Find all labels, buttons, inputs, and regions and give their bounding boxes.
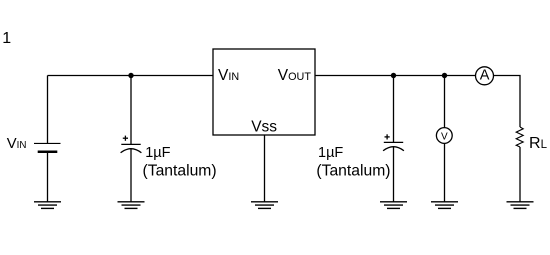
ammeter M1 <box>476 67 494 85</box>
wire voltmeter to ground <box>444 143 446 201</box>
wire ammeter to load corner <box>494 76 521 128</box>
battery V1 (input source) <box>34 143 61 151</box>
svg-text:(Tantalum): (Tantalum) <box>143 163 217 180</box>
capacitor C2 (1uF tantalum) <box>383 142 404 150</box>
voltmeter M2 <box>436 128 452 144</box>
junction input node <box>128 73 133 78</box>
wire junction to C1 <box>130 76 132 145</box>
capacitor C1 (1uF tantalum) <box>121 144 142 152</box>
svg-text:(Tantalum): (Tantalum) <box>316 163 390 180</box>
capacitor C1 polarity + <box>123 136 128 141</box>
svg-text:1: 1 <box>2 30 11 47</box>
wire battery bottom to ground <box>47 152 49 202</box>
junction output node at voltmeter <box>442 73 447 78</box>
wire C1 to ground <box>130 149 132 202</box>
wire junction to C2 <box>393 76 395 143</box>
regulator U1 (LDO box) <box>213 49 315 135</box>
wire C2 to ground <box>393 147 395 202</box>
svg-text:V: V <box>441 132 448 143</box>
wire junction to voltmeter <box>444 76 446 128</box>
capacitor C2 polarity + <box>385 134 390 139</box>
ground (Vss) <box>251 202 278 209</box>
svg-text:1µF: 1µF <box>318 145 343 161</box>
wire battery top to main rail <box>47 76 49 144</box>
wire main input rail <box>48 75 214 77</box>
wire output rail VOUT to ammeter <box>315 75 476 77</box>
wire RL to ground <box>519 147 521 202</box>
svg-text:Vss: Vss <box>251 119 277 136</box>
ground (C1) <box>118 202 145 209</box>
ground (C2) <box>380 202 407 209</box>
resistor RL (load) <box>516 127 523 147</box>
wire Vss pin to ground <box>264 135 266 202</box>
svg-text:1µF: 1µF <box>145 145 170 161</box>
ground (battery) <box>34 202 61 209</box>
ground (voltmeter) <box>431 202 458 209</box>
junction output node at C2 <box>391 73 396 78</box>
svg-text:A: A <box>480 68 490 84</box>
ground (RL) <box>507 202 534 209</box>
